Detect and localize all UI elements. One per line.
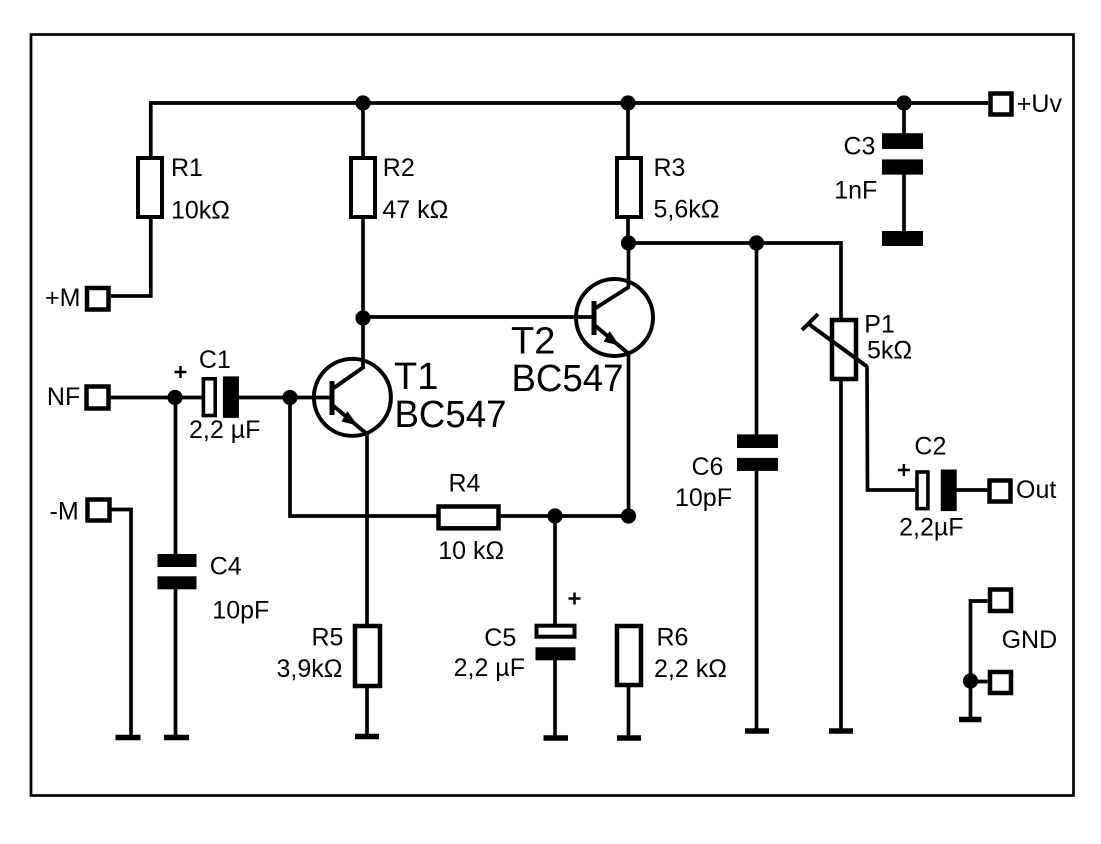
capacitor C4 — [158, 553, 270, 737]
svg-text:2,2µF: 2,2µF — [899, 513, 963, 541]
wire R3 bottom to node — [626, 217, 630, 243]
wire node to T2 base — [363, 315, 594, 319]
capacitor C1 — [175, 346, 261, 444]
node C1/T1 base/feedback — [282, 390, 297, 405]
svg-text:Out: Out — [1016, 476, 1056, 504]
node rail/R2 — [355, 95, 370, 110]
ground tick R5 — [355, 734, 379, 740]
potentiometer P1 — [802, 311, 912, 379]
svg-text:+Uv: +Uv — [1017, 90, 1063, 118]
wire P1 bottom to ground — [839, 379, 843, 729]
capacitor C2 — [898, 432, 964, 541]
node GND — [963, 673, 978, 688]
wire C2 to Out — [956, 488, 989, 492]
capacitor C6 — [675, 434, 778, 729]
terminal +Uv — [991, 90, 1063, 118]
ground tick P1 — [829, 728, 853, 734]
ground tick R6 — [617, 735, 641, 741]
GND label — [1002, 626, 1058, 654]
svg-text:R2: R2 — [383, 154, 415, 182]
wire C6 top — [755, 243, 759, 435]
node R4/T2 emitter/R6 — [621, 508, 636, 523]
svg-text:10pF: 10pF — [675, 484, 732, 512]
resistor R3 — [617, 154, 719, 224]
wire R1 bottom to +M — [111, 217, 151, 296]
wire T1 collector — [361, 318, 365, 368]
svg-text:C1: C1 — [199, 346, 231, 374]
node C6 tap — [749, 235, 764, 250]
svg-text:R6: R6 — [657, 624, 689, 652]
resistor R2 — [351, 154, 448, 224]
terminal +M — [45, 284, 109, 312]
wire R5 bottom — [365, 686, 369, 735]
svg-text:10pF: 10pF — [212, 597, 269, 625]
svg-text:NF: NF — [47, 383, 80, 411]
svg-text:1nF: 1nF — [834, 177, 877, 205]
transistor T1 — [314, 356, 507, 436]
node NF/C1/C4 — [167, 390, 182, 405]
svg-text:C4: C4 — [210, 553, 242, 581]
ground tick C6 — [745, 728, 769, 734]
ground tick C4 — [164, 735, 189, 741]
wire node to P1 corner — [629, 243, 842, 318]
wire R2 top — [361, 103, 365, 158]
ground tick C5 — [544, 735, 569, 741]
resistor R6 — [617, 624, 727, 686]
svg-text:R3: R3 — [654, 154, 686, 182]
svg-text:P1: P1 — [864, 311, 895, 339]
svg-text:T1: T1 — [394, 356, 438, 398]
wire feedback down to R4 — [290, 398, 437, 517]
svg-text:10 kΩ: 10 kΩ — [438, 537, 504, 565]
svg-text:BC547: BC547 — [512, 358, 624, 400]
svg-text:10kΩ: 10kΩ — [171, 197, 230, 225]
ground tick -M — [116, 735, 141, 741]
node rail/R3 — [620, 95, 635, 110]
wire P1 wiper to C2 — [867, 366, 915, 490]
svg-text:3,9kΩ: 3,9kΩ — [277, 655, 343, 683]
svg-text:2,2 kΩ: 2,2 kΩ — [654, 655, 727, 683]
svg-text:R4: R4 — [449, 470, 481, 498]
wire R2 bottom to node — [361, 217, 365, 318]
wire R3 top — [626, 103, 630, 158]
terminal -M — [50, 498, 110, 526]
svg-text:C5: C5 — [484, 624, 516, 652]
svg-text:47 kΩ: 47 kΩ — [382, 196, 448, 224]
svg-text:C3: C3 — [844, 133, 876, 161]
terminal NF — [47, 383, 109, 411]
terminal GND bottom — [990, 672, 1011, 693]
wire top supply rail — [149, 101, 988, 105]
node R3/T2 collector — [621, 235, 636, 250]
wire -M down to ground — [110, 510, 131, 737]
svg-text:R1: R1 — [171, 154, 203, 182]
svg-text:C6: C6 — [692, 453, 724, 481]
capacitor C3 — [834, 133, 923, 247]
svg-text:5kΩ: 5kΩ — [867, 337, 912, 365]
wire GND — [971, 601, 988, 717]
svg-text:BC547: BC547 — [395, 394, 507, 436]
resistor R4 — [438, 470, 504, 566]
wire T2 emitter down to node — [627, 354, 631, 516]
node R2/T1 collector/T2 base — [355, 310, 370, 325]
svg-text:GND: GND — [1002, 626, 1058, 654]
svg-text:C2: C2 — [914, 432, 946, 460]
resistor R1 — [138, 154, 230, 225]
wire C3 top — [902, 103, 906, 135]
svg-text:5,6kΩ: 5,6kΩ — [654, 196, 720, 224]
wire T2 collector — [627, 243, 631, 287]
svg-text:-M: -M — [50, 498, 79, 526]
wire R4 right to R6 column — [499, 514, 629, 518]
ground tick GND — [959, 717, 982, 723]
node rail/C3 — [896, 95, 911, 110]
wire C5 top — [553, 516, 557, 625]
svg-text:T2: T2 — [511, 321, 555, 363]
wire T1 emitter down to R5 — [365, 433, 369, 626]
wire C4 top — [174, 398, 178, 556]
capacitor C5 — [454, 593, 581, 737]
svg-text:2,2 µF: 2,2 µF — [454, 654, 525, 682]
svg-text:2,2 µF: 2,2 µF — [189, 416, 260, 444]
wire NF to C1 — [109, 396, 202, 400]
transistor T2 — [511, 279, 653, 400]
svg-text:R5: R5 — [312, 624, 344, 652]
node R4/C5 — [547, 508, 562, 523]
wire rail left corner down to R1 — [149, 101, 153, 156]
resistor R5 — [277, 624, 381, 686]
terminal GND top — [990, 590, 1011, 612]
svg-text:+M: +M — [45, 284, 80, 312]
terminal Out — [990, 476, 1057, 504]
wire C1 to T1 base — [238, 396, 331, 400]
wire GND node to bottom square — [971, 680, 988, 684]
wire R6 bottom — [627, 685, 631, 736]
